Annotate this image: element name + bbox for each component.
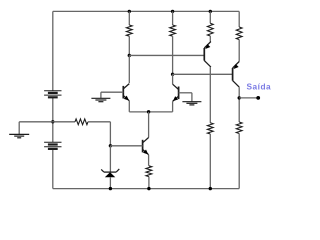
wire node D to Q5 base [173, 73, 233, 75]
ground midpoint [9, 133, 29, 135]
ground Q1 base [91, 97, 110, 99]
wire R6 to bottom rail [209, 134, 211, 189]
zener diode D1 [104, 171, 116, 173]
wire Q3 emitter to R5 [148, 155, 150, 166]
wire tail to Q3 collector [148, 112, 150, 138]
wire Q4 collector down [209, 67, 211, 123]
wire output [239, 97, 258, 99]
wire R5 to bottom rail [148, 177, 150, 189]
node top rail A [128, 10, 131, 13]
node tail E [147, 110, 150, 113]
resistor R1 [126, 25, 132, 36]
svg-text:Saída: Saída [247, 82, 272, 92]
transistor Q1 [122, 86, 124, 99]
resistor R2 [170, 25, 176, 36]
resistor R4 [236, 27, 242, 40]
resistor R3 [207, 23, 213, 36]
wire R4 to Q5 emitter [238, 40, 240, 62]
node bottom F [147, 187, 150, 190]
wire Q5 collector down [238, 87, 240, 122]
wire left rail upper [52, 11, 54, 90]
wire right rail upper [238, 11, 240, 27]
node B [128, 54, 131, 57]
node top rail I [209, 10, 212, 13]
node D [171, 73, 174, 76]
wire Q2 emitter [172, 101, 174, 111]
wire left rail lower [52, 149, 54, 188]
wire rail to R2 [172, 11, 174, 25]
wire rail to R1 [128, 11, 130, 25]
resistor R7 [236, 122, 242, 134]
battery B1 [44, 90, 61, 92]
wire midpoint to Rb [53, 121, 75, 123]
wire node B to Q1 collector [128, 55, 130, 83]
node bottom H [109, 187, 112, 190]
wire node B to Q4 base [129, 54, 204, 56]
wire Q1 emitter [128, 101, 130, 112]
resistor R6 [207, 123, 213, 134]
wire zener to bottom rail [109, 177, 111, 188]
wire bottom rail [53, 188, 239, 190]
transistor Q4 [203, 48, 205, 61]
wire Rb to node G [88, 121, 110, 123]
wire rail to R3 [209, 11, 211, 23]
wire R3 to Q4 emitter [209, 36, 211, 42]
wire node G to Q3 base [110, 145, 142, 147]
wire Q2 base [179, 92, 192, 94]
resistor Rb [75, 119, 88, 125]
wire R1 to node B [128, 36, 130, 55]
node bottom J [209, 187, 212, 190]
ground Q2 base [182, 101, 201, 103]
transistor Q5 [232, 68, 234, 81]
battery B2 [44, 141, 61, 143]
resistor R5 [146, 166, 152, 177]
transistor Q3 [142, 140, 144, 153]
transistor Q2 [178, 87, 180, 100]
wire top rail [53, 10, 239, 12]
node output terminal [256, 96, 260, 100]
wire node D to Q2 collector [172, 74, 174, 84]
wire Q1 base [101, 91, 123, 93]
node G [109, 144, 112, 147]
wire node G to zener [109, 146, 111, 172]
wire R2 to node D [172, 36, 174, 74]
node top rail C [171, 10, 174, 13]
wire midpoint to ground [19, 121, 53, 123]
wire left rail mid [52, 98, 54, 143]
wire R7 to bottom rail [238, 134, 240, 189]
node output K [238, 96, 241, 99]
node battery midpoint [51, 120, 54, 123]
